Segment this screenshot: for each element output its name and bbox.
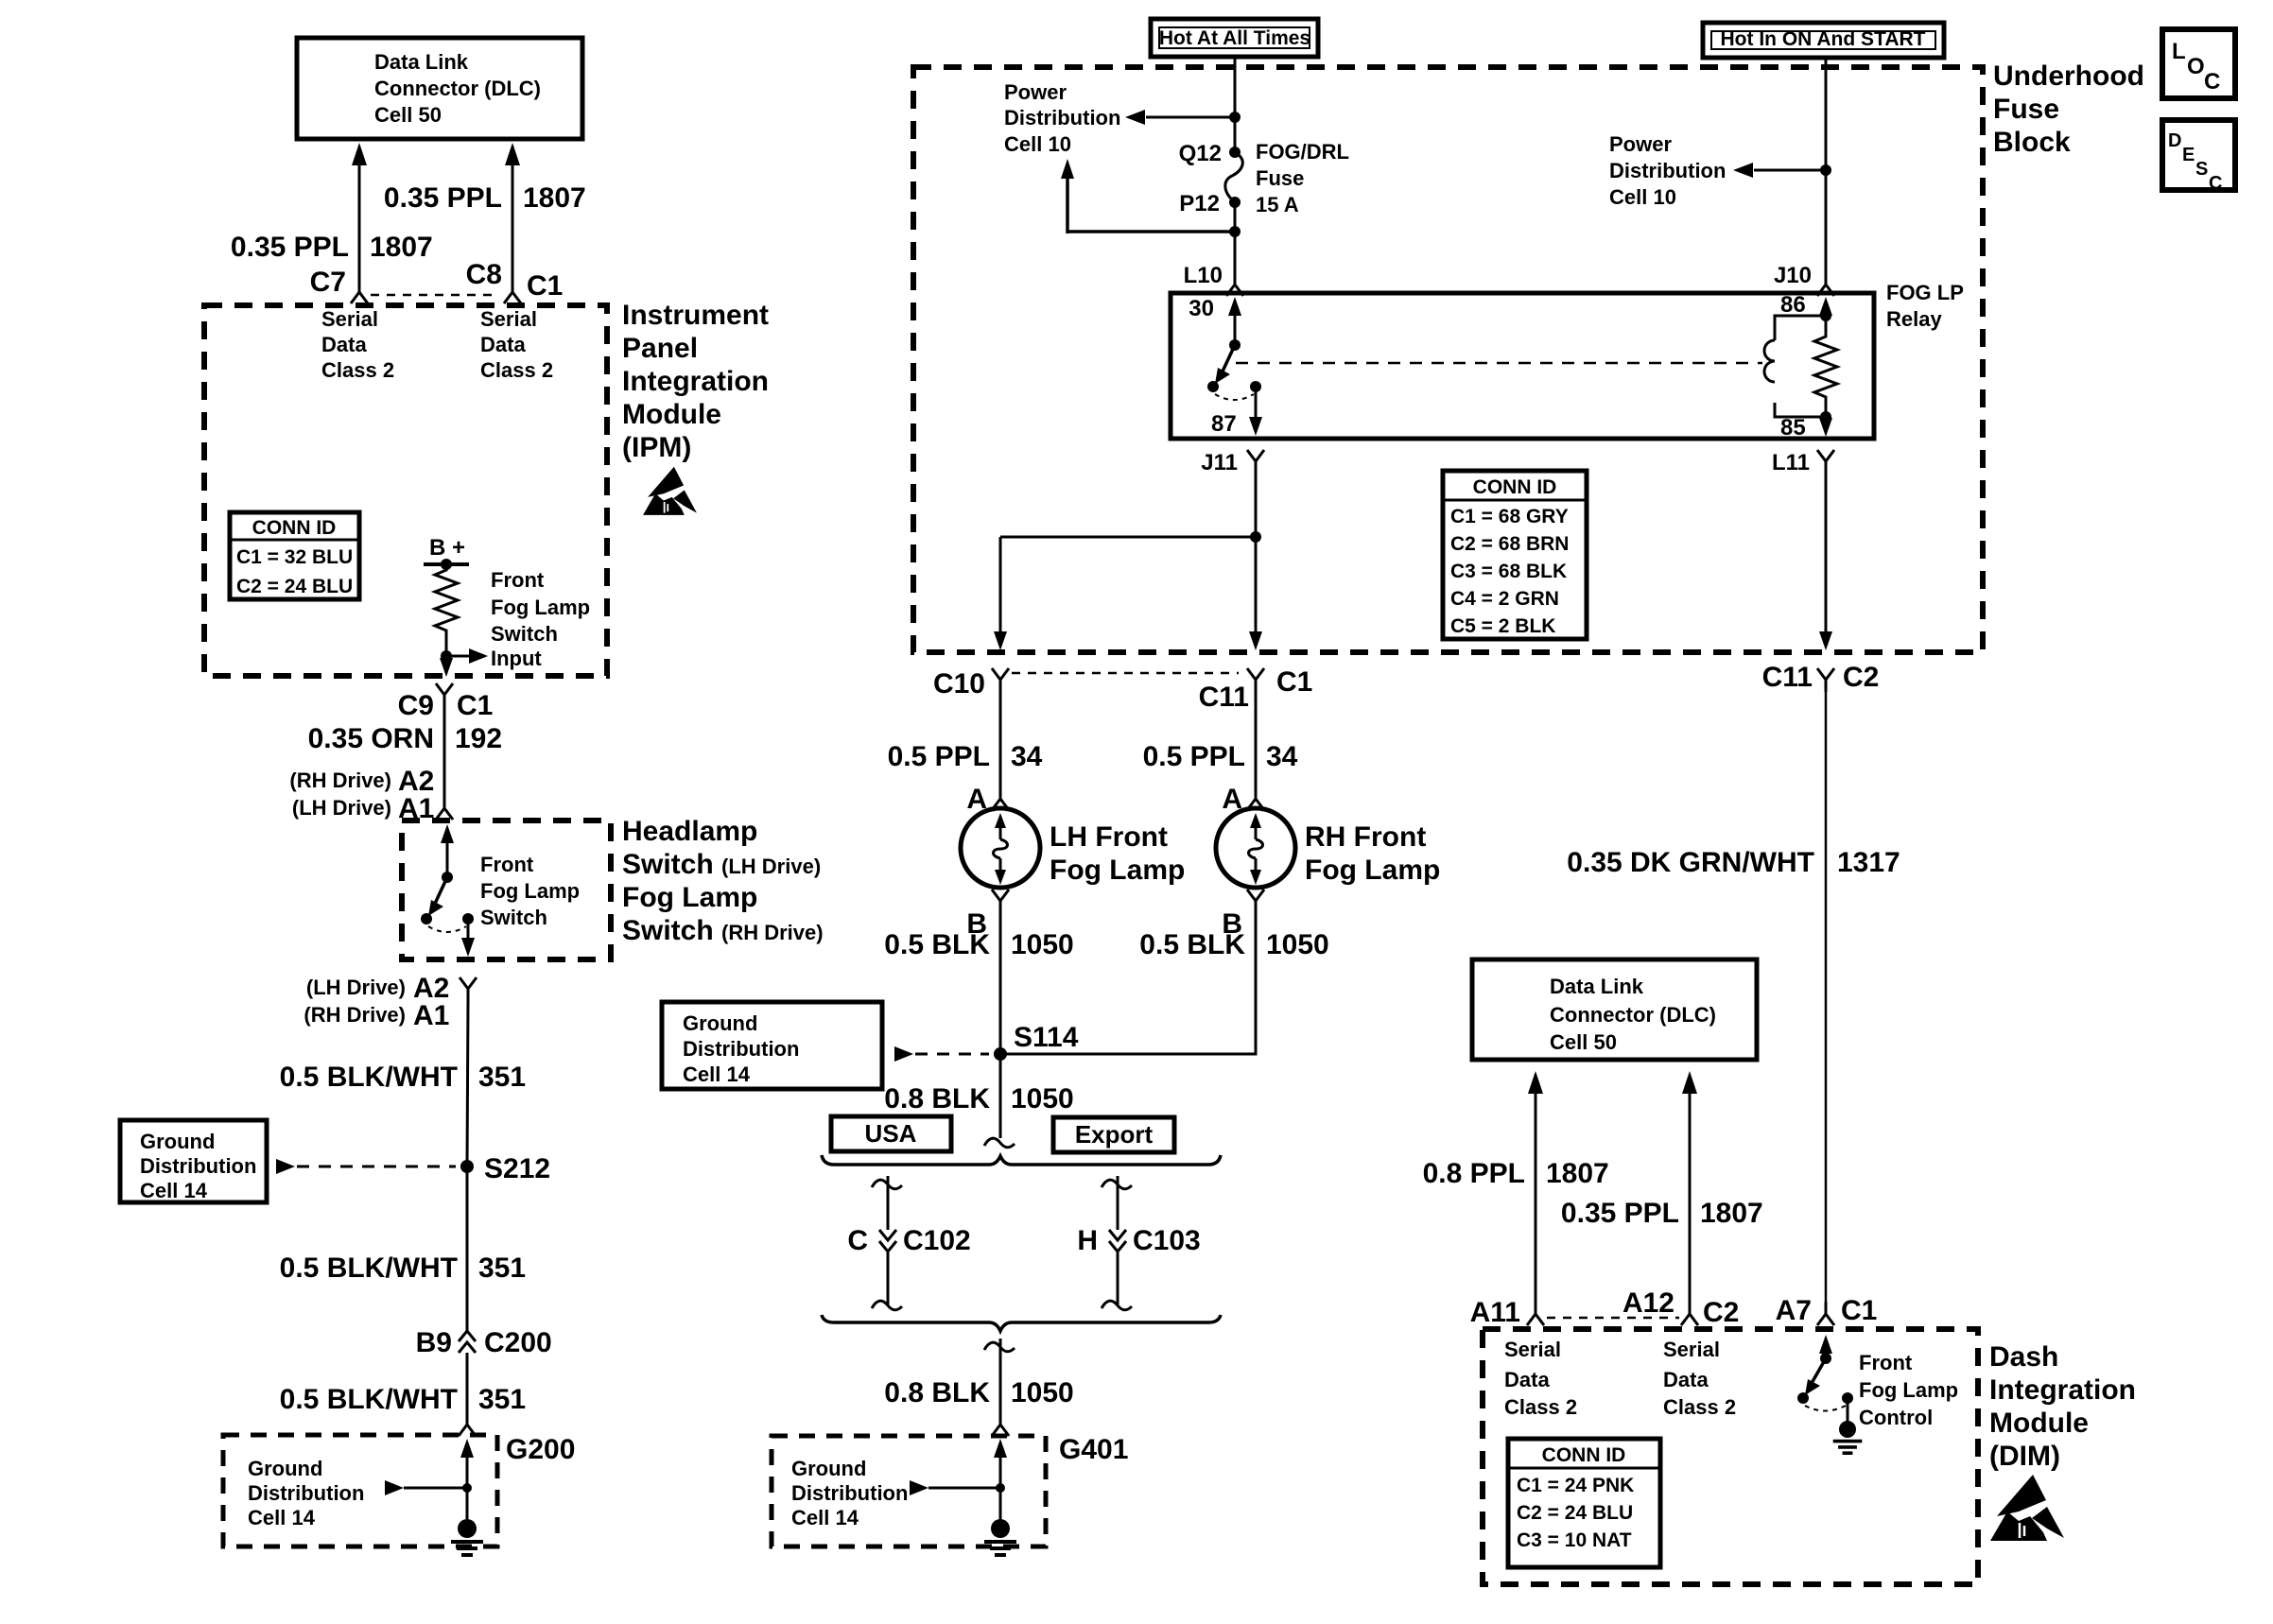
svg-text:(DIM): (DIM) [1989,1441,2060,1472]
wire 1807 A12 to DLC (arrow up) [1682,1071,1697,1303]
svg-text:Distribution: Distribution [683,1037,799,1061]
lamp RH Front Fog Lamp [1216,808,1295,888]
svg-text:LH Front: LH Front [1050,821,1168,853]
wire J11 to split junction [1255,473,1258,537]
svg-text:Hot At All Times: Hot At All Times [1159,27,1310,49]
svg-text:C1 = 24 PNK: C1 = 24 PNK [1517,1475,1634,1496]
svg-text:C1: C1 [1841,1295,1877,1326]
svg-text:0.5 BLK/WHT: 0.5 BLK/WHT [280,1253,458,1284]
wire fuse to L10 [1234,202,1237,276]
svg-text:FOG LP: FOG LP [1886,281,1964,304]
svg-text:C4 = 2 GRN: C4 = 2 GRN [1450,588,1559,610]
label FOG LP Relay [1886,281,1964,331]
svg-text:C9: C9 [398,690,434,721]
svg-text:Serial: Serial [1663,1338,1720,1361]
ESD symbol (IPM) [643,467,697,515]
svg-text:30: 30 [1189,296,1214,321]
label 0.35 DK GRN/WHT 1317 [1567,847,1900,878]
svg-text:L: L [2172,39,2186,64]
wire 1050 RH lamp to S114 [1000,912,1256,1054]
svg-text:A12: A12 [1622,1287,1674,1319]
label 0.35 ORN 192 [308,723,502,754]
svg-text:1807: 1807 [1546,1158,1609,1189]
svg-text:S114: S114 [1014,1022,1079,1053]
module box: Instrument Panel Integration Module (IPM) [204,305,607,676]
svg-text:Block: Block [1993,127,2071,158]
label (LH Drive) A2 [306,973,449,1004]
svg-text:Fog Lamp: Fog Lamp [1305,855,1440,886]
label 0.5 PPL 34 (LH) [888,741,1043,772]
svg-text:1807: 1807 [370,232,433,263]
svg-text:Cell 50: Cell 50 [374,103,442,127]
svg-text:Fuse: Fuse [1256,166,1304,190]
connector A11 [1470,1297,1544,1328]
connector C9 / C1 [398,683,494,721]
label Front Fog Lamp Switch Input [491,568,590,670]
svg-text:C: C [2209,173,2222,194]
wire 192 (C9 to headlamp switch) [443,707,446,796]
ground box G200: Ground Distribution Cell 14 [223,1434,575,1546]
svg-text:Headlamp: Headlamp [622,816,757,847]
lamp LH Front Fog Lamp [961,808,1040,888]
resistor: fog lamp switch input pull-up [435,564,458,639]
label 0.5 PPL 34 (RH) [1143,741,1298,772]
relay coil 86-85 [1764,297,1837,423]
label 0.5 BLK 1050 (RH) [1139,929,1328,960]
label Underhood Fuse Block [1993,60,2144,158]
svg-text:C2: C2 [1843,662,1879,693]
label 0.35 PPL 1807 (left wire) [231,232,433,263]
svg-text:(RH Drive): (RH Drive) [289,769,391,792]
dashed wire to S114 [894,1046,989,1062]
svg-text:D: D [2168,130,2181,151]
svg-text:0.5 BLK/WHT: 0.5 BLK/WHT [280,1062,458,1093]
svg-text:Distribution: Distribution [1609,159,1726,182]
svg-text:1807: 1807 [523,182,586,214]
connector A12 / C2 [1622,1287,1739,1328]
CONN ID table (underhood fuse block) [1443,471,1587,639]
svg-text:C8: C8 [466,259,502,290]
svg-text:C1: C1 [457,690,493,721]
DESC box [2162,120,2235,194]
svg-text:FOG/DRL: FOG/DRL [1256,140,1349,164]
svg-text:Power: Power [1004,80,1067,104]
svg-text:G200: G200 [506,1434,575,1465]
label Serial Data Class 2 (C8 side) [480,307,553,382]
module box: Dash Integration Module (DIM) [1483,1329,1978,1584]
svg-text:Cell 10: Cell 10 [1609,185,1676,209]
CONN ID table (DIM) [1508,1439,1660,1567]
box: Ground Distribution Cell 14 (left) [120,1120,267,1202]
label Power Distribution Cell 10 (left) [1004,80,1120,156]
connector C8 / C1 (IPM-DLC) [466,259,564,303]
junction + switch input arrow [441,639,488,664]
wire USA branch (hook top) [872,1176,902,1230]
svg-text:0.35 PPL: 0.35 PPL [1561,1198,1679,1229]
svg-text:CONN ID: CONN ID [252,517,337,539]
svg-text:0.35 ORN: 0.35 ORN [308,723,434,754]
connector B9 / C200 [416,1327,552,1358]
svg-text:Fog Lamp: Fog Lamp [480,879,580,903]
svg-text:B9: B9 [416,1327,452,1358]
connector J11 [1201,450,1264,475]
label LH Front Fog Lamp [1050,821,1185,886]
brace bottom (merge) [822,1315,1221,1331]
dashed link C7-C8 [371,294,499,297]
wire 1807 A11 to DLC (arrow up) [1528,1071,1543,1303]
svg-text:1050: 1050 [1011,1083,1074,1114]
svg-text:192: 192 [455,723,502,754]
svg-text:H: H [1077,1225,1098,1256]
label 0.5 BLK 1050 (LH) [884,929,1073,960]
svg-text:Switch: Switch [491,622,558,646]
svg-text:0.5 BLK: 0.5 BLK [1139,929,1245,960]
pin B (LH) [966,890,1009,940]
wire Export branch (hook top) [1102,1176,1132,1230]
relay contact 87 to box edge [1249,387,1262,436]
ground G200 wire and symbol [385,1439,483,1555]
dashed wire to S212 [276,1159,456,1174]
wire 1807 from C7 to DLC (arrow up) [352,143,367,280]
CONN ID table (IPM) [230,512,359,599]
svg-text:Switch: Switch [480,906,547,929]
svg-text:Distribution: Distribution [1004,106,1120,130]
svg-text:Cell 14: Cell 14 [683,1063,751,1086]
svg-text:Input: Input [491,647,542,670]
svg-text:S: S [2195,159,2208,180]
label (LH Drive) A1 [292,793,434,824]
svg-text:1050: 1050 [1011,1377,1074,1408]
dashed link C10-C11 [1012,672,1239,675]
svg-text:C1 = 32 BLU: C1 = 32 BLU [236,546,353,568]
svg-text:Cell 14: Cell 14 [140,1179,208,1202]
label RH Front Fog Lamp [1305,821,1440,886]
svg-text:S212: S212 [484,1153,550,1184]
svg-text:1050: 1050 [1266,929,1329,960]
fuse FOG/DRL 15A [1179,140,1349,216]
svg-text:Class 2: Class 2 [480,358,553,382]
svg-text:(LH Drive): (LH Drive) [292,796,391,820]
node B+ [424,535,469,570]
wire hot in on and start to J10 [1825,56,1828,276]
svg-text:CONN ID: CONN ID [1542,1444,1626,1466]
svg-text:Class 2: Class 2 [1504,1395,1577,1419]
svg-text:(IPM): (IPM) [622,432,691,463]
svg-text:0.5 BLK/WHT: 0.5 BLK/WHT [280,1384,458,1415]
svg-text:0.8 PPL: 0.8 PPL [1423,1158,1525,1189]
connector J10 [1774,263,1834,296]
svg-text:34: 34 [1266,741,1298,772]
wire 351 (switch to S212) [467,1000,468,1166]
svg-text:Data: Data [1504,1368,1550,1391]
label (RH Drive) A1 [304,1000,449,1031]
svg-text:Front: Front [480,853,534,876]
svg-text:Fog Lamp: Fog Lamp [1859,1378,1958,1402]
label Headlamp Switch (LH Drive) Fog Lamp Switch (RH Drive) [622,816,824,946]
junction to power distribution [1125,110,1241,125]
svg-text:Distribution: Distribution [140,1154,256,1178]
wire 1050 LH lamp to S114 [999,912,1002,1054]
svg-text:CONN ID: CONN ID [1473,476,1557,498]
svg-text:Fog Lamp: Fog Lamp [1050,855,1185,886]
svg-text:C103: C103 [1133,1225,1201,1256]
svg-text:J11: J11 [1201,450,1238,475]
svg-text:Underhood: Underhood [1993,60,2144,92]
svg-text:0.8 BLK: 0.8 BLK [884,1377,990,1408]
label Front Fog Lamp Control [1859,1351,1958,1429]
connector A1 (switch) [436,796,453,820]
svg-text:Module: Module [622,399,721,430]
label Serial Data Class 2 (A12) [1663,1338,1736,1419]
switch: front fog lamp control [1797,1335,1862,1453]
svg-text:USA: USA [865,1119,917,1148]
svg-text:C5 = 2 BLK: C5 = 2 BLK [1450,615,1555,637]
svg-text:0.5 PPL: 0.5 PPL [888,741,990,772]
svg-text:1050: 1050 [1011,929,1074,960]
module box: Headlamp Switch / Fog Lamp Switch [402,821,611,959]
connector C11 / C2 (DIM feed) [1762,662,1880,693]
wire Export branch (hook bottom) [1102,1253,1132,1310]
label Dash Integration Module (DIM) [1989,1341,2136,1472]
box USA [831,1116,951,1151]
svg-text:C2 = 68 BRN: C2 = 68 BRN [1450,533,1569,555]
connector L10 [1184,263,1243,296]
svg-text:O: O [2187,54,2205,79]
svg-text:Data: Data [1663,1368,1709,1391]
brace top (split USA/Export) [822,1155,1221,1165]
svg-text:Q12: Q12 [1179,141,1222,166]
svg-text:0.35 PPL: 0.35 PPL [384,182,502,214]
svg-text:L10: L10 [1184,263,1223,288]
pin B (RH) [1222,890,1264,940]
svg-text:Cell 14: Cell 14 [248,1506,316,1529]
junction split to both fog lamps [1000,531,1261,543]
label 0.5 BLK/WHT 351 [280,1384,526,1415]
svg-text:(LH Drive): (LH Drive) [306,976,406,999]
connector at G401 [992,1412,1009,1436]
connector A2 below switch [460,977,477,1001]
svg-text:B +: B + [429,535,465,561]
svg-text:C11: C11 [1762,662,1813,693]
ground G401 wire and symbol [910,1439,1016,1555]
svg-text:Integration: Integration [1989,1374,2136,1406]
svg-text:A1: A1 [413,1000,449,1031]
label 0.35 PPL 1807 (right wire) [384,182,586,214]
svg-text:Ground: Ground [248,1457,322,1480]
label Serial Data Class 2 (A11) [1504,1338,1577,1419]
svg-text:Connector (DLC): Connector (DLC) [374,77,541,100]
pin A (RH) [1222,784,1264,815]
box: Data Link Connector (DLC) Cell 50 (right) [1472,959,1757,1060]
svg-text:Hot In ON And START: Hot In ON And START [1721,28,1926,50]
svg-text:0.5 PPL: 0.5 PPL [1143,741,1245,772]
connector L11 [1772,450,1834,475]
svg-text:C2 = 24 BLU: C2 = 24 BLU [1517,1502,1633,1524]
connector H / C103 [1077,1225,1200,1256]
relay switch contact 30 [1207,297,1261,400]
junction to power distribution (below fuse) [1061,159,1241,237]
svg-text:34: 34 [1011,741,1043,772]
svg-text:Connector (DLC): Connector (DLC) [1550,1003,1716,1027]
svg-text:C10: C10 [933,668,985,700]
connector at G200 [459,1412,476,1436]
svg-text:Cell 10: Cell 10 [1004,132,1071,156]
box: Hot At All Times [1151,19,1318,57]
wire down to C9 with arrow [440,656,453,677]
svg-text:Ground: Ground [683,1011,757,1035]
connector C7 (IPM) [310,267,368,303]
box: Ground Distribution Cell 14 (middle) [662,1002,882,1089]
wire 1807 from C8 to DLC (arrow up) [505,143,520,280]
LOC box [2162,29,2235,98]
box Export [1053,1117,1174,1152]
wire 351 (S212 to C200) [466,1166,469,1331]
wire L11 to C11 (arrow down at box edge) [1819,473,1832,650]
svg-text:J10: J10 [1774,263,1812,288]
box: Data Link Connector (DLC) Cell 50 (top-left) [297,38,582,139]
svg-text:Data Link: Data Link [374,50,469,74]
label 0.8 BLK 1050 [884,1083,1073,1114]
svg-text:87: 87 [1211,411,1237,437]
svg-text:Ground: Ground [791,1457,866,1480]
svg-text:C2: C2 [1703,1297,1739,1328]
svg-text:Control: Control [1859,1406,1933,1429]
svg-text:Data: Data [480,333,526,356]
svg-text:Serial: Serial [480,307,537,331]
connector C11 / C1 (lamp) [1199,666,1313,713]
connector C10 [933,668,1009,700]
label IPM module [622,300,769,463]
switch: front fog lamp switch [421,824,475,957]
svg-text:RH Front: RH Front [1305,821,1426,853]
svg-text:Power: Power [1609,132,1672,156]
wire to C11 (arrow down at box edge) [1249,537,1262,650]
label 0.35 PPL 1807 [1561,1198,1763,1229]
svg-text:85: 85 [1780,415,1806,441]
box: Hot In ON And START [1703,23,1944,58]
svg-text:C11: C11 [1199,682,1249,713]
svg-text:0.35 DK GRN/WHT: 0.35 DK GRN/WHT [1567,847,1814,878]
svg-text:C102: C102 [903,1225,971,1256]
svg-text:Ground: Ground [140,1130,215,1153]
label 0.8 PPL 1807 [1423,1158,1609,1189]
label 0.5 BLK/WHT 351 [280,1062,526,1093]
svg-text:351: 351 [478,1062,526,1093]
svg-text:Data: Data [321,333,367,356]
svg-text:C: C [2204,69,2220,95]
svg-text:Fuse: Fuse [1993,94,2059,125]
wire to C10 (arrow down at box edge) [994,537,1007,650]
wire merge (hook) to G401 [984,1339,1015,1414]
svg-text:Class 2: Class 2 [1663,1395,1736,1419]
svg-text:Distribution: Distribution [791,1481,908,1505]
svg-text:Fog Lamp: Fog Lamp [622,882,757,913]
label Serial Data Class 2 (C7 side) [321,307,394,382]
wire 1050 S114 down [999,1054,1002,1138]
svg-text:Integration: Integration [622,366,769,397]
svg-text:Serial: Serial [1504,1338,1561,1361]
module box: Underhood Fuse Block [913,67,1983,652]
junction to power distribution (right) [1733,163,1831,178]
label Front Fog Lamp Switch [480,853,580,929]
svg-text:C2 = 24 BLU: C2 = 24 BLU [236,576,353,597]
svg-text:C1: C1 [1276,666,1312,698]
splice S212 [460,1153,550,1184]
svg-text:C1: C1 [527,270,563,302]
svg-text:Relay: Relay [1886,307,1942,331]
svg-text:Cell 14: Cell 14 [791,1506,859,1529]
wire 351 (C200 to G200) [466,1353,469,1414]
svg-text:Class 2: Class 2 [321,358,394,382]
svg-text:Front: Front [491,568,545,592]
dashed link A11-A12 [1547,1317,1679,1320]
connector A7 / C1 [1776,1295,1878,1326]
svg-text:Panel: Panel [622,333,698,364]
svg-text:A7: A7 [1776,1295,1812,1326]
svg-text:351: 351 [478,1384,526,1415]
svg-text:Serial: Serial [321,307,378,331]
svg-text:C200: C200 [484,1327,552,1358]
svg-text:Data Link: Data Link [1550,975,1644,998]
wire 1317 (C11 to DIM A7) [1825,692,1828,1303]
svg-text:C3 = 10 NAT: C3 = 10 NAT [1517,1529,1632,1551]
svg-text:0.5 BLK: 0.5 BLK [884,929,990,960]
svg-text:C3 = 68 BLK: C3 = 68 BLK [1450,561,1567,582]
svg-text:0.35 PPL: 0.35 PPL [231,232,349,263]
svg-text:P12: P12 [1179,191,1220,216]
svg-text:0.8 BLK: 0.8 BLK [884,1083,990,1114]
connector C / C102 [847,1225,970,1256]
svg-text:1317: 1317 [1837,847,1900,878]
svg-text:Fog Lamp: Fog Lamp [491,596,590,619]
relay coil to box edge arrow [1819,417,1832,437]
wire hot at all times to fuse [1234,57,1237,152]
svg-text:Dash: Dash [1989,1341,2058,1373]
svg-text:C7: C7 [310,267,346,298]
svg-text:C: C [847,1225,868,1256]
label Power Distribution Cell 10 (right) [1609,132,1726,209]
svg-text:G401: G401 [1059,1434,1128,1465]
svg-text:Distribution: Distribution [248,1481,364,1505]
svg-text:Module: Module [1989,1408,2089,1439]
label (RH Drive) A2 [289,766,434,797]
wire break hook [984,1138,1015,1148]
svg-text:351: 351 [478,1253,526,1284]
svg-text:A11: A11 [1470,1297,1520,1328]
relay coil dashed link [1236,362,1762,365]
ground box G401: Ground Distribution Cell 14 [772,1434,1128,1546]
svg-text:1807: 1807 [1700,1198,1763,1229]
svg-text:Instrument: Instrument [622,300,769,331]
svg-text:Front: Front [1859,1351,1913,1374]
svg-text:C1 = 68 GRY: C1 = 68 GRY [1450,506,1569,527]
wire USA branch (hook bottom) [872,1253,902,1310]
svg-text:E: E [2182,145,2195,165]
svg-text:86: 86 [1780,292,1806,318]
label 0.8 BLK 1050 (lower) [884,1377,1073,1408]
svg-text:Export: Export [1075,1120,1154,1149]
svg-text:L11: L11 [1772,450,1810,475]
splice S114 [994,1022,1079,1061]
wire 34 to RH lamp [1255,692,1258,788]
label 0.5 BLK/WHT 351 [280,1253,526,1284]
pin A (LH) [966,784,1009,815]
ESD symbol (DIM) [1990,1475,2064,1541]
svg-text:(RH Drive): (RH Drive) [304,1003,406,1027]
wire 34 to LH lamp [999,692,1002,788]
svg-text:15 A: 15 A [1256,193,1299,216]
relay box: FOG LP Relay [1171,293,1874,439]
